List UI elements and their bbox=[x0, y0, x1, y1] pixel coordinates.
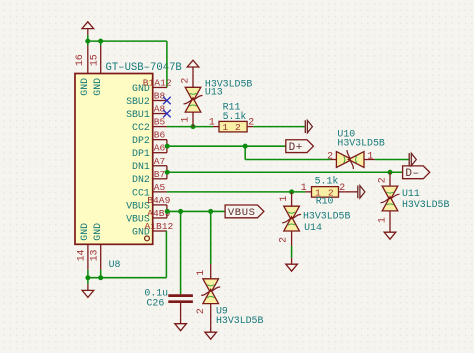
svg-text:1: 1 bbox=[195, 270, 206, 276]
svg-text:H3V3LD5B: H3V3LD5B bbox=[402, 199, 449, 210]
svg-text:B8: B8 bbox=[154, 91, 166, 102]
svg-text:1: 1 bbox=[301, 182, 307, 193]
svg-text:DP1: DP1 bbox=[132, 148, 150, 159]
svg-text:R10: R10 bbox=[316, 196, 334, 207]
svg-text:1: 1 bbox=[179, 117, 190, 123]
svg-text:B1A12: B1A12 bbox=[143, 77, 172, 88]
svg-text:1: 1 bbox=[222, 122, 228, 133]
svg-text:U8: U8 bbox=[109, 259, 121, 270]
svg-text:A8: A8 bbox=[154, 104, 166, 115]
svg-text:GND: GND bbox=[92, 78, 103, 96]
svg-text:GT–USB–7047B: GT–USB–7047B bbox=[106, 62, 182, 74]
svg-text:U13: U13 bbox=[205, 87, 223, 98]
svg-text:SBU2: SBU2 bbox=[126, 96, 150, 107]
svg-text:A5: A5 bbox=[154, 182, 166, 193]
svg-text:GND: GND bbox=[79, 78, 90, 96]
svg-text:H3V3LD5B: H3V3LD5B bbox=[337, 137, 384, 148]
svg-text:B7: B7 bbox=[154, 169, 166, 180]
svg-text:15: 15 bbox=[88, 54, 99, 66]
svg-text:GND: GND bbox=[92, 223, 103, 241]
svg-text:D+: D+ bbox=[289, 142, 303, 154]
svg-text:2: 2 bbox=[235, 122, 241, 133]
svg-text:H3V3LD5B: H3V3LD5B bbox=[216, 315, 263, 326]
svg-text:2: 2 bbox=[278, 237, 289, 243]
svg-text:5.1k: 5.1k bbox=[315, 176, 339, 187]
svg-text:1: 1 bbox=[278, 196, 289, 202]
svg-text:A7: A7 bbox=[154, 156, 166, 167]
svg-text:2: 2 bbox=[179, 78, 190, 84]
svg-text:VBUS: VBUS bbox=[126, 200, 150, 211]
svg-text:DP2: DP2 bbox=[132, 135, 150, 146]
svg-text:GND: GND bbox=[79, 223, 90, 241]
svg-text:U14: U14 bbox=[304, 222, 322, 233]
svg-text:2: 2 bbox=[376, 177, 387, 183]
svg-text:H3V3LD5B: H3V3LD5B bbox=[303, 211, 350, 222]
svg-text:2: 2 bbox=[195, 308, 206, 314]
svg-text:5.1k: 5.1k bbox=[223, 111, 247, 122]
svg-text:A1B12: A1B12 bbox=[145, 221, 174, 232]
svg-text:VBUS: VBUS bbox=[228, 207, 256, 219]
svg-text:1: 1 bbox=[367, 151, 373, 162]
svg-text:CC2: CC2 bbox=[132, 122, 150, 133]
svg-text:2: 2 bbox=[327, 151, 333, 162]
svg-text:B6: B6 bbox=[154, 130, 166, 141]
svg-text:2: 2 bbox=[248, 117, 254, 128]
svg-text:14: 14 bbox=[76, 250, 87, 262]
svg-text:U11: U11 bbox=[402, 188, 420, 199]
svg-text:D–: D– bbox=[405, 168, 419, 180]
svg-text:SBU1: SBU1 bbox=[126, 109, 150, 120]
svg-text:DN2: DN2 bbox=[132, 174, 150, 185]
svg-text:A6: A6 bbox=[154, 143, 166, 154]
svg-text:1: 1 bbox=[209, 117, 215, 128]
svg-text:2: 2 bbox=[339, 182, 345, 193]
svg-text:C26: C26 bbox=[147, 297, 165, 308]
svg-text:B5: B5 bbox=[154, 117, 166, 128]
svg-text:13: 13 bbox=[89, 250, 100, 262]
svg-text:16: 16 bbox=[74, 54, 85, 66]
svg-text:DN1: DN1 bbox=[132, 161, 150, 172]
svg-text:1: 1 bbox=[376, 217, 387, 223]
svg-text:B4A9: B4A9 bbox=[147, 195, 170, 206]
